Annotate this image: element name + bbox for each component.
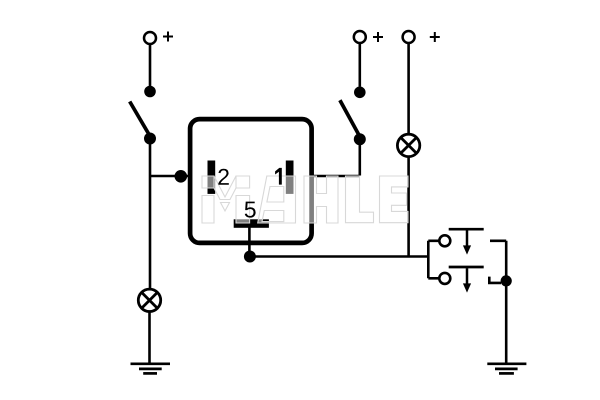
lamp E2 [397,134,419,156]
node junction output [501,275,512,286]
push-button S3 output wire upper [490,241,506,281]
pin label 1 [275,168,282,185]
node junction A [175,170,188,183]
wire [358,43,361,86]
push-button S3 upper arrow [466,230,469,246]
terminal +30 left [144,32,156,44]
wire [505,281,508,364]
node junction pin 5 [244,251,256,263]
push-button S3 upper contact [439,235,450,246]
wire [150,175,189,178]
MAHLE watermark [202,176,408,223]
push-button S3 lower actuator bar [449,266,484,269]
node switch S1 pivot [144,133,156,145]
plus label middle [373,32,383,42]
push-button switch S3 input bracket [428,241,439,278]
terminal +49 right [403,31,415,43]
wire [250,255,428,258]
pin 1 terminal bar [286,161,294,194]
ground right [487,364,526,374]
wire [407,157,410,257]
switch S1 lever [130,102,151,138]
node switch S1 fixed contact [144,86,156,98]
push-button S3 upper actuator bar [449,228,484,231]
ground left [131,364,171,374]
wire [149,139,152,177]
wire [149,44,152,86]
node switch S2 fixed contact [354,87,366,99]
pin 5 terminal plate [234,219,269,228]
lamp E1 [138,289,160,311]
plus label left [163,32,173,42]
push-button S3 output stub lower [489,277,501,283]
pin 2 terminal bar [208,161,216,194]
pin label 2 [218,169,228,185]
push-button S3 lower arrow [466,268,469,284]
wire [149,176,152,288]
terminal +15 middle [354,31,366,43]
switch S2 lever [340,100,360,137]
plus label right [430,32,440,42]
node switch S2 pivot [354,133,366,145]
relay K1 flasher unit body [190,119,312,243]
wire [358,139,361,175]
push-button S3 lower contact [439,273,450,284]
wire [148,312,151,364]
wire [248,227,251,257]
wire [407,43,410,134]
wire [311,175,360,178]
pin label 5 [245,202,256,218]
